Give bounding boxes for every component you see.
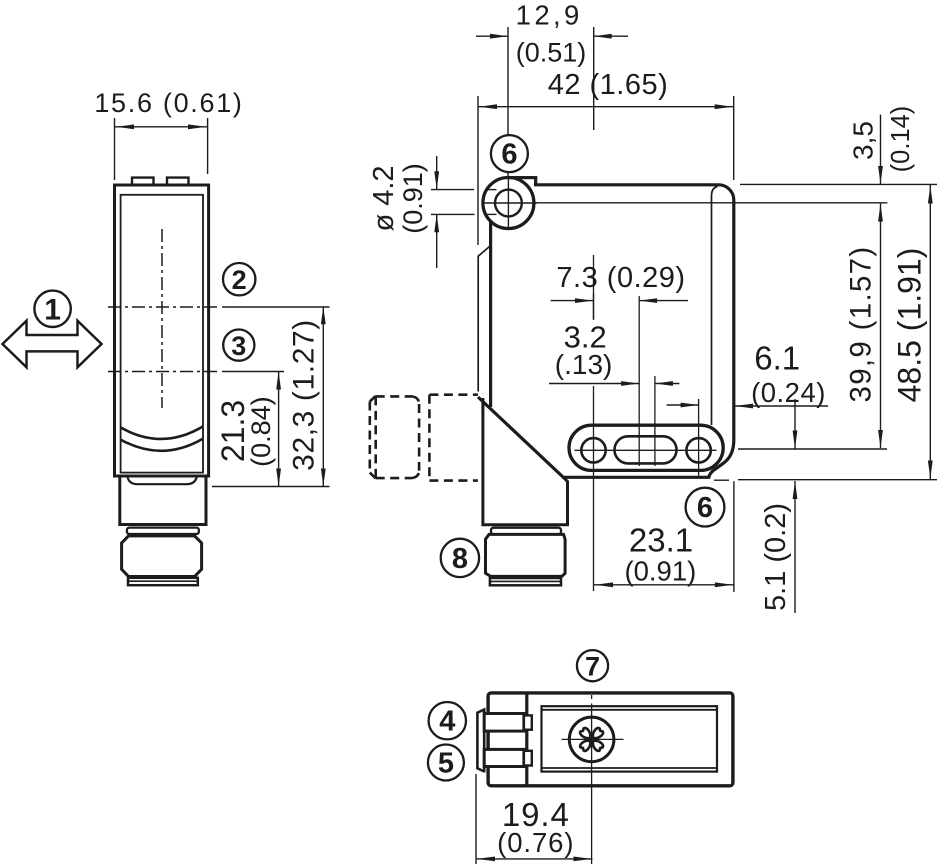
svg-text:42 (1.65): 42 (1.65) [548, 69, 669, 101]
bottom view inner line top [542, 709, 718, 711]
dimension 39,9 line with arrows [880, 204, 882, 448]
extension 19.4 left [475, 774, 477, 864]
side connector section A [120, 476, 206, 525]
svg-text:ø 4.2: ø 4.2 [368, 165, 400, 231]
dimension line 15.6 with arrows [115, 126, 208, 128]
mounting hole left [581, 438, 605, 462]
side view body inner contour [121, 195, 203, 473]
hole axis right vertical [698, 399, 700, 477]
svg-text:(0.91): (0.91) [398, 163, 428, 234]
screw boss inner circle [495, 190, 522, 217]
svg-text:3: 3 [231, 331, 246, 361]
front connector ring B [491, 528, 561, 535]
dimension 48.5 line with arrows [929, 185, 931, 479]
dimension 6.1 inner arrow [667, 404, 699, 406]
extension top edge right [740, 183, 937, 185]
dimension line 23.1 with arrows [594, 584, 734, 586]
screw crosshair [562, 738, 624, 740]
clamp bar 5 tip [524, 751, 532, 766]
front connector nut C [486, 534, 566, 576]
dimension line 19.4 with arrows [476, 858, 593, 860]
svg-text:7.3 (0.29): 7.3 (0.29) [556, 262, 685, 294]
dimension line 12,9 outside arrows [476, 35, 508, 37]
svg-text:32,3 (1.27): 32,3 (1.27) [288, 319, 321, 471]
side view top tab 2 [167, 178, 189, 185]
body center axis vertical [638, 296, 640, 466]
mounting slot inner oval [615, 436, 677, 463]
clamp bar 4 tip [524, 715, 532, 729]
receiver axis vertical [654, 376, 656, 466]
bottom view inner rectangle [542, 706, 718, 771]
dimension 7.3 outside arrows [551, 300, 593, 302]
clamp bar 5 [484, 749, 524, 766]
extension line 42 left [477, 96, 479, 245]
hole axis left vertical [593, 255, 595, 320]
svg-text:7: 7 [585, 652, 600, 682]
optical axis 3 extension [222, 371, 284, 373]
svg-text:23.1: 23.1 [629, 522, 693, 559]
item circle 7 [577, 650, 608, 681]
side view body outer rectangle [115, 185, 209, 476]
svg-text:2: 2 [232, 265, 247, 295]
side connector plate D inner line [128, 580, 198, 582]
extension line 42 right [733, 96, 735, 180]
item circle 6 bottom [686, 488, 725, 527]
svg-text:(.13): (.13) [555, 349, 613, 380]
front connector section A [483, 398, 568, 525]
front connector plate D inner line [490, 580, 561, 582]
optical axis 2 extension [222, 306, 330, 308]
extension lines for 15.6 [114, 118, 116, 180]
front connector plate D [490, 578, 561, 585]
lens front curve lower [121, 439, 203, 451]
bottom reference extension line [212, 486, 330, 488]
item circle 3 [223, 330, 254, 361]
svg-text:(0.51): (0.51) [516, 38, 587, 68]
svg-text:(0.84): (0.84) [246, 396, 276, 467]
front body left thin contour [478, 247, 489, 392]
extension 7.3 left [593, 294, 595, 319]
item circle 1 [34, 291, 70, 327]
boss tab outline [508, 178, 536, 185]
extension hole center right [738, 448, 887, 450]
dimension 3,5 line with arrow [880, 115, 882, 184]
front body top face line [484, 202, 888, 204]
svg-text:6.1: 6.1 [754, 340, 800, 377]
mounting hole right [686, 438, 710, 462]
lens front curve upper [121, 426, 203, 439]
svg-text:5: 5 [438, 748, 454, 780]
svg-text:(0.91): (0.91) [624, 556, 696, 587]
svg-text:(0.76): (0.76) [497, 827, 574, 858]
bottom view division line [525, 693, 528, 786]
item circle 6 top [491, 135, 528, 172]
screw head circle [569, 717, 614, 762]
svg-text:1: 1 [44, 293, 61, 326]
svg-text:8: 8 [452, 543, 468, 575]
svg-text:3,5: 3,5 [848, 121, 879, 160]
item circle 2 [223, 263, 255, 295]
front body inner right contour [712, 187, 718, 426]
dimension 21.3 line with arrows [278, 372, 280, 487]
dimension 3.2 outside arrows [549, 383, 639, 385]
extension lines oe4.2 [431, 189, 474, 191]
extension 23.1 right [733, 481, 735, 592]
item circle 4 [429, 702, 466, 739]
item circle 8 [441, 539, 479, 577]
hidden M8 connector side (dashed) [370, 395, 478, 481]
svg-text:4: 4 [439, 706, 455, 738]
svg-text:6: 6 [501, 139, 517, 171]
svg-text:15.6 (0.61): 15.6 (0.61) [94, 88, 243, 118]
side connector section A inner curve [128, 477, 197, 484]
screw boss crosshair [483, 202, 537, 204]
slot horizontal centerline [575, 449, 717, 451]
optical axis line 2 (dash-dot) [108, 306, 217, 308]
bottom view body rectangle [488, 693, 733, 786]
front body outline [508, 178, 536, 185]
side view top tab 1 [132, 178, 154, 185]
svg-text:6: 6 [697, 492, 713, 524]
side connector nut C [122, 536, 202, 577]
extension line screw boss center [507, 27, 509, 182]
side view vertical centerline [161, 229, 163, 408]
svg-text:(0.24): (0.24) [751, 377, 826, 408]
svg-text:48.5 (1.91): 48.5 (1.91) [892, 248, 928, 403]
svg-text:39,9 (1.57): 39,9 (1.57) [845, 246, 878, 403]
clamp strip [477, 710, 484, 772]
extension bottom edge right [714, 479, 729, 481]
dimension 6.1 leader with arrow [735, 405, 828, 407]
mounting slot outer [569, 425, 723, 470]
screw boss outer circle [483, 178, 534, 229]
dimension line 42 with arrows [478, 106, 734, 108]
dimension 32,3 line with arrows [322, 306, 324, 486]
item circle 5 [428, 745, 464, 781]
svg-text:5.1 (0.2): 5.1 (0.2) [760, 503, 792, 611]
optical axis line 3 (dash-dot) [108, 371, 217, 373]
clamp bar 4 [484, 714, 524, 732]
screw pozidriv cross [590, 738, 604, 752]
dimension 5.1 arrows outside [794, 399, 796, 449]
dimension oe4.2 lines with outside arrows [436, 156, 438, 189]
svg-text:12,9: 12,9 [516, 0, 583, 31]
extension line lens axis [593, 27, 595, 130]
side connector plate D [128, 578, 198, 585]
svg-text:(0.14): (0.14) [887, 106, 915, 173]
direction arrow symbol [3, 321, 102, 368]
side connector ring B [127, 528, 199, 534]
bottom view inner line bottom [542, 767, 718, 769]
